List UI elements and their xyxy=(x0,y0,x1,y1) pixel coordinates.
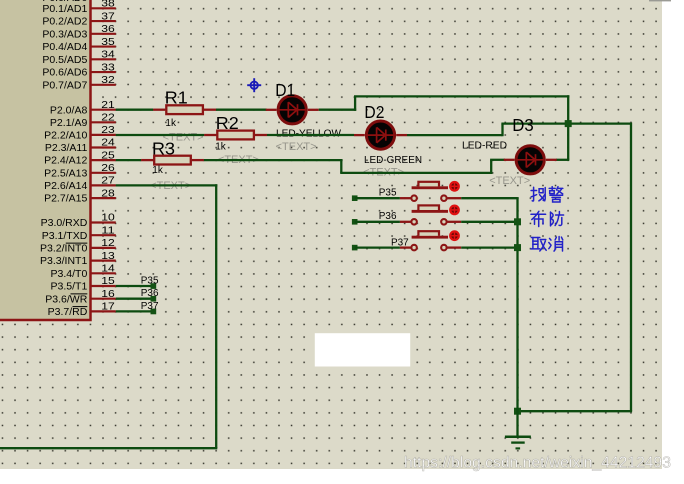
U1 microcontroller 8051 chip body xyxy=(0,0,91,320)
LED D3 leads xyxy=(504,159,557,161)
pin 28 P2.7/A15 xyxy=(44,187,116,204)
svg-text:36: 36 xyxy=(101,23,115,35)
svg-text:16: 16 xyxy=(101,288,115,300)
wire pin25 P2.4/A12 to R3 xyxy=(116,159,141,161)
wire junction to ground xyxy=(516,411,518,436)
pin 17 P3.7/RD xyxy=(48,301,116,318)
wire pin net P36 xyxy=(116,296,156,302)
svg-text:LED-YELLOW: LED-YELLOW xyxy=(276,128,341,140)
svg-text:33: 33 xyxy=(101,61,115,73)
svg-text:P0.2/AD2: P0.2/AD2 xyxy=(42,16,87,28)
svg-text:35: 35 xyxy=(101,36,115,48)
pin 16 P3.6/WR xyxy=(45,288,116,305)
svg-text:P2.2/A10: P2.2/A10 xyxy=(44,130,87,142)
pin 34 P0.5/AD5 xyxy=(42,49,115,66)
svg-text:P3.1/TXD: P3.1/TXD xyxy=(42,230,88,242)
wire left terminal net of P36 xyxy=(352,219,400,225)
chinese char fang(arm) xyxy=(551,212,564,226)
svg-text:P0.5/AD5: P0.5/AD5 xyxy=(42,54,87,66)
svg-text:<TEXT>: <TEXT> xyxy=(489,175,530,187)
wire R3 to D3 (stepped route) xyxy=(204,159,505,174)
wire D2 anode up to junction row xyxy=(407,124,631,137)
pin 10 P3.0/RXD xyxy=(41,212,116,229)
chinese char jing(alarm) xyxy=(549,187,563,202)
label P37 xyxy=(391,238,409,249)
value 1k of R2 xyxy=(215,142,227,153)
wire right terminal of P35 to rail xyxy=(461,197,517,199)
net label P37 xyxy=(141,301,159,312)
LED D3 symbol xyxy=(516,146,544,174)
wire R1 to D1 xyxy=(216,109,267,111)
svg-text:R2: R2 xyxy=(216,113,239,133)
svg-text:P2.0/A8: P2.0/A8 xyxy=(50,104,88,116)
chinese char qu(cancel) xyxy=(531,238,546,252)
svg-text:1k: 1k xyxy=(215,142,227,153)
label R1 xyxy=(165,87,188,107)
pin 27 P2.6/A14 xyxy=(44,175,116,192)
svg-text:11: 11 xyxy=(101,224,115,236)
resistor R1 leads xyxy=(153,109,216,111)
watermark csdn url xyxy=(404,455,671,472)
pin 37 P0.2/AD2 xyxy=(42,10,115,27)
svg-text:32: 32 xyxy=(101,74,115,86)
button P36 actuator icon xyxy=(450,206,459,215)
right vertical rail from junction to bottom xyxy=(518,123,633,412)
wire pin27 P2.6/A14 down-left rail xyxy=(0,184,217,448)
wire left terminal net of P37 xyxy=(352,245,400,251)
wire left terminal net of P35 xyxy=(352,195,400,201)
white overlay rectangle xyxy=(315,333,410,366)
placeholder TEXT of R1 xyxy=(163,131,204,143)
svg-text:38: 38 xyxy=(101,0,115,10)
label P35 xyxy=(379,187,397,198)
pin 12 P3.2/INT0 xyxy=(40,237,116,254)
svg-text:P2.5/A13: P2.5/A13 xyxy=(44,167,87,179)
chinese char bao(alarm) xyxy=(531,187,545,201)
pin 14 P3.4/T0 xyxy=(51,263,116,280)
svg-text:P0.3/AD3: P0.3/AD3 xyxy=(42,28,87,40)
svg-text:25: 25 xyxy=(101,149,115,161)
pin 11 P3.1/TXD xyxy=(42,224,116,241)
label D2 xyxy=(364,102,384,122)
svg-text:23: 23 xyxy=(101,124,115,136)
svg-text:D1: D1 xyxy=(275,80,295,100)
LED D1 leads xyxy=(266,109,319,111)
label D1 xyxy=(275,80,295,100)
pin 26 P2.5/A13 xyxy=(44,162,116,179)
label R2 xyxy=(216,113,239,133)
button P37 actuator icon xyxy=(450,231,459,240)
svg-text:R1: R1 xyxy=(165,87,188,107)
value LED-YELLOW of D1 xyxy=(276,128,341,140)
label P36 xyxy=(379,211,397,222)
svg-text:P2.7/A15: P2.7/A15 xyxy=(44,193,87,205)
svg-text:34: 34 xyxy=(101,49,115,61)
svg-text:10: 10 xyxy=(101,212,115,224)
value LED-RED of D3 xyxy=(462,140,507,152)
svg-text:12: 12 xyxy=(101,237,115,249)
resistor R2 leads xyxy=(204,134,267,136)
wire D1 anode up and across to right rail xyxy=(319,96,570,110)
placeholder TEXT of R3 xyxy=(150,180,191,192)
svg-text:P2.3/A11: P2.3/A11 xyxy=(45,142,88,154)
pin 22 P2.1/A9 xyxy=(50,112,116,129)
svg-text:17: 17 xyxy=(101,301,115,313)
svg-text:P2.6/A14: P2.6/A14 xyxy=(44,180,87,192)
svg-text:13: 13 xyxy=(101,250,115,262)
svg-text:<TEXT>: <TEXT> xyxy=(276,141,317,153)
svg-text:P3.3/INT1: P3.3/INT1 xyxy=(40,255,87,267)
svg-text:P3.0/RXD: P3.0/RXD xyxy=(41,217,88,229)
svg-text:P0.4/AD4: P0.4/AD4 xyxy=(42,41,87,53)
svg-text:https://blog.csdn.net/weixin_4: https://blog.csdn.net/weixin_44212493 xyxy=(404,455,671,472)
wire R2 to D2 xyxy=(267,134,354,136)
svg-text:P37: P37 xyxy=(141,301,159,312)
label D3 xyxy=(512,115,534,135)
wire pin21 P2.0/A8 to R1 xyxy=(116,109,153,111)
value 1k of R1 xyxy=(165,118,177,129)
net label P35 xyxy=(141,275,159,286)
value 1k of R3 xyxy=(152,165,164,176)
chinese char xiao(cancel) xyxy=(549,237,563,252)
junction dot rail P36 xyxy=(514,218,521,225)
ground symbol xyxy=(505,437,531,449)
LED D2 leads xyxy=(354,134,407,136)
pin 13 P3.3/INT1 xyxy=(40,250,116,267)
svg-text:14: 14 xyxy=(101,263,115,275)
wire pin net P37 xyxy=(116,309,156,315)
resistor R2 body xyxy=(217,131,254,140)
svg-text:P35: P35 xyxy=(141,275,159,286)
button rail vertical xyxy=(516,197,518,411)
chinese char bu(arm) xyxy=(531,211,546,226)
pin 32 P0.7/AD7 xyxy=(42,74,115,91)
svg-text:P3.5/T1: P3.5/T1 xyxy=(51,281,88,293)
pin 25 P2.4/A12 xyxy=(44,149,116,166)
svg-text:1k: 1k xyxy=(152,165,164,176)
svg-text:P0.6/AD6: P0.6/AD6 xyxy=(42,67,87,79)
value LED-GREEN of D2 xyxy=(364,154,422,166)
svg-text:R3: R3 xyxy=(152,139,175,159)
wire pin23 P2.2/A10 to R2 xyxy=(116,134,204,136)
resistor R3 body xyxy=(154,156,191,165)
svg-text:LED-GREEN: LED-GREEN xyxy=(364,154,422,166)
resistor R1 body xyxy=(166,105,203,114)
svg-text:21: 21 xyxy=(101,99,115,111)
svg-text:P3.4/T0: P3.4/T0 xyxy=(51,268,88,280)
svg-text:P36: P36 xyxy=(141,288,159,299)
svg-text:22: 22 xyxy=(101,112,115,124)
svg-text:P36: P36 xyxy=(379,211,397,222)
LED D2 symbol xyxy=(366,121,394,149)
pin 38 P0.1/AD1 xyxy=(42,0,115,15)
junction dot at D2/D1 net xyxy=(565,120,572,127)
pin 24 P2.3/A11 xyxy=(45,137,116,154)
origin marker crosshair xyxy=(247,78,261,92)
svg-text:15: 15 xyxy=(101,275,115,287)
pin 23 P2.2/A10 xyxy=(44,124,116,141)
svg-text:P35: P35 xyxy=(379,187,397,198)
svg-text:P2.4/A12: P2.4/A12 xyxy=(44,155,87,167)
svg-text:1k: 1k xyxy=(165,118,177,129)
button P37 xyxy=(400,230,461,250)
svg-text:LED-RED: LED-RED xyxy=(462,140,507,152)
LED D1 symbol xyxy=(278,96,306,124)
svg-text:26: 26 xyxy=(101,162,115,174)
svg-text:P0.1/AD1: P0.1/AD1 xyxy=(42,3,87,15)
button P36 xyxy=(400,204,461,224)
svg-text:D3: D3 xyxy=(512,115,534,135)
pin 15 P3.5/T1 xyxy=(51,275,116,292)
wire right terminal of P37 to rail xyxy=(461,246,517,248)
svg-text:28: 28 xyxy=(101,187,115,199)
svg-text:P3.2/INT0: P3.2/INT0 xyxy=(40,243,87,255)
svg-text:37: 37 xyxy=(101,10,115,22)
svg-text:24: 24 xyxy=(101,137,115,149)
resistor R3 leads xyxy=(141,159,204,161)
pin 35 P0.4/AD4 xyxy=(42,36,115,53)
placeholder TEXT of D1 xyxy=(276,141,317,153)
svg-text:P37: P37 xyxy=(391,238,409,249)
svg-text:D2: D2 xyxy=(364,102,384,122)
svg-text:27: 27 xyxy=(101,175,115,187)
button P35 xyxy=(400,181,461,201)
wire vertical into D3 cathode xyxy=(556,95,569,160)
net label P36 xyxy=(141,288,159,299)
label R3 xyxy=(152,139,175,159)
placeholder TEXT of R2 xyxy=(218,154,259,166)
svg-text:P3.7/RD: P3.7/RD xyxy=(48,306,88,318)
junction dot above ground xyxy=(514,408,521,415)
pin 33 P0.6/AD6 xyxy=(42,61,115,78)
button P35 actuator icon xyxy=(450,182,459,191)
wire right terminal of P36 to rail xyxy=(461,221,517,223)
wire pin net P35 xyxy=(116,283,156,289)
pin 21 P2.0/A8 xyxy=(50,99,116,116)
svg-text:P0.7/AD7: P0.7/AD7 xyxy=(42,79,87,91)
placeholder TEXT of D2 xyxy=(363,167,404,179)
placeholder TEXT of D3 xyxy=(489,175,530,187)
svg-text:P2.1/A9: P2.1/A9 xyxy=(50,117,88,129)
junction dot rail P37 xyxy=(514,244,521,251)
pin label P0.0/AD0 (clipped at top) xyxy=(42,0,87,4)
svg-text:P3.6/WR: P3.6/WR xyxy=(45,293,87,305)
pin 36 P0.3/AD3 xyxy=(42,23,115,40)
